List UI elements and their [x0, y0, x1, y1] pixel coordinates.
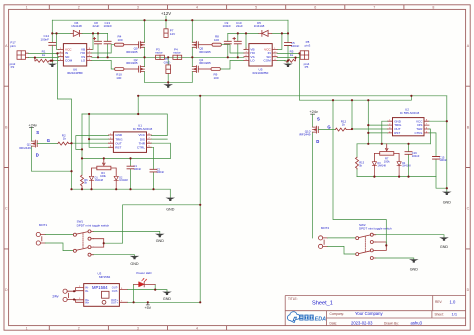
- connector P4 motor: [173, 47, 182, 59]
- wire U2 RST stub: [368, 132, 387, 134]
- wire VB riser to U5 pin8: [244, 33, 246, 49]
- transistor Q2 IRF3205: [126, 57, 144, 82]
- resistor R12: [318, 119, 352, 131]
- svg-text:Company:: Company:: [330, 312, 345, 316]
- connector MOT2: [319, 226, 330, 248]
- svg-text:IN+: IN+: [85, 301, 90, 305]
- svg-text:IC 555-SOIC8: IC 555-SOIC8: [400, 111, 420, 115]
- svg-text:2: 2: [78, 327, 80, 331]
- svg-text:1k: 1k: [42, 53, 46, 57]
- svg-text:6: 6: [314, 5, 316, 9]
- svg-text:5: 5: [255, 5, 257, 9]
- wire MP1584 OUT- to GND: [128, 290, 167, 292]
- wire SW1 throw4 to GND: [94, 255, 135, 256]
- potentiometer R3: [92, 158, 117, 177]
- svg-text:100nF: 100nF: [104, 24, 113, 28]
- svg-text:100: 100: [214, 38, 219, 42]
- wire U6 LO to R10: [92, 60, 115, 69]
- capacitor C2: [150, 147, 164, 189]
- wire U6 COM to ground node: [52, 60, 58, 62]
- wire SW1 cross link: [94, 239, 104, 247]
- connector P8: [300, 40, 310, 69]
- svg-text:CTRL: CTRL: [137, 146, 145, 150]
- connector 24v input: [52, 289, 75, 302]
- wire U2 wiper line: [357, 143, 430, 145]
- svg-text:MOT2: MOT2: [321, 226, 330, 230]
- svg-text:CTRL: CTRL: [415, 131, 423, 135]
- svg-text:IRF3205: IRF3205: [199, 61, 211, 65]
- svg-text:100nF: 100nF: [134, 167, 142, 171]
- svg-text:MP1584: MP1584: [99, 275, 111, 279]
- svg-text:D: D: [36, 153, 39, 158]
- wire U5 IN to P8 pin3: [277, 52, 300, 54]
- switch SW1 DPDT: [73, 220, 109, 257]
- svg-text:G: G: [47, 138, 50, 143]
- ground (H-bridge): [167, 82, 169, 84]
- timer U2 IC 555-SOIC8: [388, 108, 430, 136]
- ground (SW1 throw1): [155, 234, 165, 237]
- svg-text:GND: GND: [166, 207, 175, 211]
- capacitor C5: [285, 41, 300, 64]
- wire SW2 cross link: [376, 242, 387, 250]
- wire SW1 throw1 to GND: [94, 231, 160, 233]
- wire SW2 throw1 to GND: [376, 235, 444, 238]
- svg-text:pin3: pin3: [305, 43, 311, 47]
- wire Q1 drain to OUT vertical: [32, 170, 72, 172]
- capacitor C8: [93, 21, 102, 57]
- svg-text:S: S: [317, 117, 320, 122]
- wire D5 anode line: [272, 32, 288, 34]
- svg-text:3: 3: [137, 5, 139, 9]
- svg-text:100nF: 100nF: [223, 24, 232, 28]
- svg-text:1N4148: 1N4148: [95, 179, 104, 182]
- transistor Q0 IRF3205: [126, 20, 144, 57]
- svg-text:Date:: Date:: [330, 321, 338, 325]
- wire VB bootstrap line right: [228, 32, 258, 34]
- wire VCC riser to U6 pin1: [57, 33, 59, 49]
- svg-text:IRF3205: IRF3205: [126, 61, 138, 65]
- wire U1 THR leg: [152, 143, 171, 158]
- capacitor C16: [405, 144, 420, 177]
- svg-text:GND: GND: [443, 200, 452, 204]
- wire VB riser to U6 pin8: [92, 33, 93, 49]
- wire VCC line to D6 anode: [52, 32, 71, 34]
- net +12V rail: [52, 19, 288, 21]
- capacitor C10: [233, 21, 243, 57]
- svg-text:1N4148: 1N4148: [71, 24, 82, 28]
- wire 555#2 OUT to R12 node: [352, 128, 387, 130]
- svg-text:D: D: [5, 288, 8, 292]
- node phase line (VS net, motor line): [92, 56, 244, 58]
- wire U2 gnd bottom line: [357, 177, 447, 189]
- svg-text:1k: 1k: [290, 53, 294, 57]
- svg-text:1k: 1k: [342, 123, 346, 127]
- ground (MP1584 OUT-): [162, 292, 172, 295]
- svg-text:IN-: IN-: [85, 289, 89, 293]
- ground (U1 section): [166, 198, 176, 201]
- svg-text:100nF: 100nF: [291, 44, 300, 48]
- svg-text:1/1: 1/1: [452, 312, 458, 317]
- svg-text:100k: 100k: [100, 174, 106, 178]
- svg-text:Sheet:: Sheet:: [435, 313, 444, 317]
- svg-text:IR2104PBF: IR2104PBF: [67, 71, 83, 75]
- svg-text:Drawn By:: Drawn By:: [384, 321, 399, 325]
- wire +5V long vertical: [199, 96, 201, 302]
- resistor R1: [35, 50, 52, 63]
- svg-text:COM: COM: [263, 59, 271, 63]
- svg-text:IRF3205: IRF3205: [126, 50, 138, 54]
- svg-text:C: C: [5, 207, 8, 211]
- svg-text:1N4148: 1N4148: [254, 24, 265, 28]
- capacitor C13: [104, 21, 113, 57]
- resistor R9: [198, 68, 220, 80]
- diode D2: [114, 176, 128, 189]
- wire R9 to U5 LO: [220, 60, 244, 69]
- svg-text:100nF: 100nF: [157, 170, 165, 174]
- svg-text:100k: 100k: [384, 159, 390, 163]
- svg-text:1: 1: [26, 5, 28, 9]
- wire 555#1 OUT to R2 node: [72, 142, 109, 144]
- svg-text:IC 555-SOIC8: IC 555-SOIC8: [133, 127, 153, 131]
- connector P7 12V: [164, 20, 175, 37]
- svg-text:4: 4: [196, 5, 198, 9]
- wire U1 DIS stub: [152, 138, 168, 140]
- EasyEDA logo: [287, 312, 326, 323]
- timer U1 IC 555-SOIC8: [108, 124, 152, 153]
- svg-text:24v: 24v: [52, 293, 58, 298]
- title block: [285, 296, 465, 326]
- svg-text:GND: GND: [410, 268, 419, 272]
- wire R8 to U5 HO: [221, 45, 244, 53]
- connector P6 GND: [164, 57, 172, 82]
- wire MOT1.2 to SW1 pole2: [45, 243, 73, 251]
- wire VB bootstrap line: [82, 32, 108, 34]
- +12V net label: [161, 11, 171, 20]
- wire P17.2 to U6 SD: [28, 57, 58, 59]
- svg-text:pin1: pin1: [10, 44, 16, 48]
- wire +12V right drop: [287, 20, 289, 42]
- svg-text:+24v: +24v: [309, 109, 318, 114]
- op-amp U6 IR2104 gate driver: [58, 44, 91, 75]
- diode D4: [397, 162, 411, 177]
- wire line y100.2: [300, 96, 412, 100]
- wire U1 gnd bottom line: [72, 189, 171, 197]
- svg-text:Your Company: Your Company: [355, 311, 383, 316]
- wire U6 HO to R4: [92, 45, 115, 53]
- svg-text:IR2104PBF: IR2104PBF: [253, 71, 269, 75]
- wire SW1 cross to +5V vertical: [104, 205, 201, 243]
- svg-text:RST: RST: [394, 131, 400, 135]
- connector P3 motor: [155, 47, 164, 59]
- svg-text:GND: GND: [156, 239, 165, 243]
- transistor Q1 IRF2449 (P-ch): [19, 122, 50, 171]
- svg-text:MOT1: MOT1: [39, 223, 48, 227]
- svg-text:100nF: 100nF: [412, 154, 420, 158]
- diode D3: [372, 162, 386, 177]
- op-amp U5 IR2104 gate driver: [244, 44, 277, 75]
- svg-text:100: 100: [214, 76, 219, 80]
- ground (SW2 throw4): [409, 259, 419, 262]
- svg-text:P5: P5: [305, 65, 309, 69]
- svg-text:1.0: 1.0: [450, 299, 456, 304]
- svg-text:C: C: [467, 207, 470, 211]
- wire H-bridge ground rail: [145, 81, 193, 83]
- wire MOT1.1 to SW1 pole1: [45, 234, 73, 236]
- switch SW2 DPDT: [356, 223, 392, 260]
- ground (C5/COM U5): [283, 64, 293, 67]
- svg-text:P2: P2: [11, 65, 15, 69]
- svg-text:100: 100: [118, 38, 123, 42]
- svg-text:+5V: +5V: [144, 306, 151, 310]
- svg-text:2: 2: [78, 5, 80, 9]
- svg-text:2023-02-03: 2023-02-03: [351, 320, 373, 325]
- wire VCC riser to U5 pin1: [277, 33, 282, 49]
- svg-text:MP1584: MP1584: [92, 285, 108, 290]
- svg-text:4: 4: [196, 327, 198, 331]
- transistor Q4 IRF3205: [192, 57, 211, 82]
- svg-text:IRF3205: IRF3205: [199, 50, 211, 54]
- wire U2 VCC to gnd rail drop: [429, 120, 447, 122]
- wire U1 GND jog: [76, 136, 109, 150]
- wire SW2 throw4 to GND: [376, 258, 414, 259]
- capacitor C15: [429, 133, 447, 177]
- wire MOT2.1 to SW2 pole1: [328, 237, 356, 239]
- svg-text:RST: RST: [115, 146, 121, 150]
- wire MP1584 OUT+ to +5V vertical: [128, 301, 201, 303]
- svg-text:DPDT mini toggle switch: DPDT mini toggle switch: [359, 227, 392, 231]
- resistor R10: [115, 68, 139, 80]
- capacitor C1: [127, 158, 141, 189]
- LED Power LED: [134, 271, 156, 302]
- svg-text:1N4148: 1N4148: [378, 164, 387, 167]
- svg-text:7: 7: [373, 5, 375, 9]
- wire U2 THR leg: [429, 129, 430, 144]
- diode D1: [89, 176, 103, 189]
- svg-text:Power LED: Power LED: [136, 271, 152, 275]
- wire +12V left drop to VCC node: [51, 20, 53, 42]
- svg-text:OUT-: OUT-: [112, 289, 118, 293]
- svg-text:OUT+: OUT+: [111, 301, 118, 305]
- ground (SW1 throw4): [130, 256, 140, 259]
- wire OUT riser to U6 IN (feedback staircase): [57, 53, 71, 143]
- svg-text:D: D: [316, 139, 319, 144]
- diode D5: [254, 21, 272, 37]
- svg-text:DPDT mini toggle switch: DPDT mini toggle switch: [77, 223, 110, 227]
- svg-text:12V: 12V: [170, 32, 175, 36]
- wire U5 IN riser: [299, 53, 301, 100]
- svg-text:3: 3: [137, 327, 139, 331]
- svg-text:REV:: REV:: [435, 300, 442, 304]
- connector MOT1: [36, 223, 47, 245]
- svg-text:1: 1: [26, 327, 28, 331]
- svg-text:LO: LO: [250, 59, 255, 63]
- svg-text:TITLE:: TITLE:: [288, 297, 298, 301]
- wire OUT vertical down to gnd line: [71, 143, 73, 189]
- +5V net flag: [144, 302, 151, 310]
- svg-text:GND: GND: [164, 61, 172, 65]
- svg-text:motor: motor: [155, 51, 163, 55]
- svg-text:COM: COM: [65, 59, 73, 63]
- transistor Q5 IRF3205: [192, 20, 211, 57]
- wire gnd rail right drop: [446, 96, 448, 192]
- wire GND rail y95.8: [138, 95, 447, 97]
- wire line B y114: [82, 114, 167, 136]
- svg-text:GND: GND: [130, 262, 139, 266]
- svg-text:22uF: 22uF: [93, 24, 100, 28]
- resistor R2: [37, 133, 71, 145]
- resistor R6: [81, 175, 89, 189]
- wire U5 SD to P8 pin4: [277, 57, 300, 59]
- wire SW2 cross feed from y100.2: [333, 100, 386, 245]
- wire U1 RST/TRIG branch: [89, 114, 108, 147]
- svg-text:1N4148: 1N4148: [402, 164, 411, 167]
- svg-text:+12V: +12V: [161, 11, 171, 16]
- svg-text:GND: GND: [440, 245, 449, 249]
- svg-text:GND: GND: [163, 297, 172, 301]
- resistor R5: [277, 50, 295, 63]
- svg-text:motor: motor: [173, 51, 181, 55]
- svg-text:1N4148: 1N4148: [119, 179, 128, 182]
- wire x82 vertical: [81, 114, 83, 175]
- svg-text:ashu3: ashu3: [411, 320, 423, 325]
- svg-text:D: D: [467, 288, 470, 292]
- svg-text:IRF2449: IRF2449: [19, 146, 31, 150]
- wire R12 riser to y100.2: [351, 100, 353, 129]
- wire wiper line y158.4: [82, 157, 170, 159]
- potentiometer R7: [374, 144, 399, 164]
- wire P17.1 to U6 IN: [28, 52, 58, 54]
- svg-text:IRF2449: IRF2449: [299, 133, 311, 137]
- svg-text:S: S: [36, 130, 39, 135]
- wire riser x138.2: [137, 96, 139, 114]
- ground (right rail): [442, 192, 452, 195]
- ground (C14/COM): [48, 64, 58, 67]
- wire MOT2.2 to SW2 pole2: [328, 246, 356, 254]
- resistor R4: [114, 35, 138, 47]
- regulator module U3 MP1584: [76, 271, 128, 306]
- connector P17: [10, 41, 29, 70]
- resistor R8: [198, 35, 221, 47]
- resistor R13: [356, 144, 365, 177]
- ground (SW2 throw1): [439, 237, 449, 240]
- capacitor C9: [223, 21, 232, 57]
- svg-text:22uF: 22uF: [236, 24, 243, 28]
- svg-text:100: 100: [116, 76, 121, 80]
- svg-text:100nF: 100nF: [40, 37, 49, 41]
- svg-text:1k: 1k: [63, 137, 67, 141]
- svg-text:G: G: [327, 124, 330, 129]
- svg-text:+24v: +24v: [28, 122, 37, 127]
- diode D6: [71, 21, 82, 37]
- svg-text:Sheet_1: Sheet_1: [312, 301, 333, 307]
- svg-text:LO: LO: [81, 59, 86, 63]
- wire U2 GND leg: [382, 121, 388, 144]
- capacitor C14: [40, 34, 55, 63]
- svg-text:EDA: EDA: [315, 317, 326, 323]
- wire U2 TRIG leg: [368, 100, 387, 144]
- svg-text:100nF: 100nF: [439, 158, 447, 162]
- svg-text:8: 8: [432, 5, 434, 9]
- transistor Q10 IRF2449 (P-ch): [299, 109, 331, 238]
